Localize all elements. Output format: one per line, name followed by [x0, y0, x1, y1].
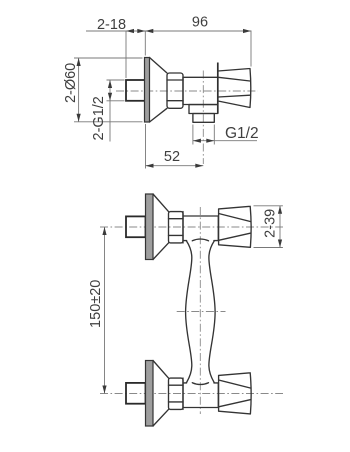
escutcheon flange plate — [145, 58, 150, 123]
extension line at flange face — [144, 32, 146, 56]
outlet threaded nipple — [193, 114, 214, 123]
top handle internal lines — [219, 214, 251, 241]
bottom inlet block — [126, 383, 146, 404]
dimension 2-39 line — [279, 206, 281, 248]
arrow left of 96 dim — [145, 29, 153, 33]
dimension 2-G1/2 arrows — [108, 80, 112, 88]
column body left edge — [186, 241, 192, 383]
arrow right of 96 dim — [243, 29, 251, 33]
handle cone internal lines — [218, 77, 250, 97]
bottom valve body — [183, 378, 218, 409]
nut facet lines — [167, 80, 183, 101]
centerline middle horizontal — [177, 311, 226, 313]
top nut facet lines — [169, 219, 184, 236]
dimension 52 arrows — [146, 164, 154, 168]
top inlet block — [126, 216, 146, 237]
dimension 2-O60 arrows — [77, 58, 81, 66]
top flange plate — [146, 194, 154, 260]
bottom nut facet lines — [169, 385, 184, 402]
dimension G1/2 arrows — [193, 139, 201, 143]
handle skirt — [217, 63, 219, 114]
inlet pipe block — [126, 80, 146, 101]
arrow right of 18 dim — [137, 29, 145, 33]
top valve body — [183, 212, 218, 243]
top handle — [219, 206, 252, 247]
dimension 150+-20 arrows — [102, 227, 106, 235]
dimension 2-39 arrows — [278, 206, 282, 214]
top escutcheon cone — [153, 194, 169, 260]
svg-text:96: 96 — [192, 15, 208, 31]
dimension 2-39 extension lines — [254, 205, 283, 207]
dimension 2-O60 line — [78, 58, 80, 122]
dimension 52 line — [146, 165, 204, 167]
centerline column vertical — [199, 207, 201, 414]
handle cone — [218, 69, 251, 108]
bottom escutcheon cone — [153, 361, 169, 427]
valve body — [183, 77, 218, 104]
dimension 150+-20 line — [104, 227, 106, 394]
bottom flange plate — [146, 361, 154, 427]
dimension 2-G1/2 extension lines — [107, 79, 125, 81]
arrow left of 18 dim — [126, 29, 134, 33]
svg-text:2-18: 2-18 — [97, 17, 126, 33]
escutcheon cone — [150, 58, 168, 123]
centerline bottom valve axis — [100, 393, 283, 395]
hex nut — [167, 73, 183, 108]
outlet upper step — [189, 105, 218, 114]
dimension G1/2 extension lines — [192, 125, 194, 145]
centerline horizontal valve axis — [116, 90, 258, 92]
extension line at wall — [125, 32, 127, 79]
dimension 2-18 and 96 line — [86, 30, 252, 32]
svg-text:2-Ø60: 2-Ø60 — [63, 63, 79, 103]
dimension G1/2 line with leader — [193, 140, 257, 142]
svg-text:150±20: 150±20 — [88, 280, 104, 328]
svg-text:G1/2: G1/2 — [225, 125, 259, 142]
centerline outlet axis vertical — [202, 71, 204, 165]
bottom hex nut — [169, 378, 184, 409]
bottom handle internal lines — [219, 380, 251, 407]
top saddle arc — [192, 239, 208, 241]
bottom handle — [219, 373, 252, 414]
dimension 2-O60 extension lines — [74, 57, 143, 59]
top hex nut — [169, 212, 184, 243]
dimension 52 extension line — [145, 124, 147, 169]
bottom saddle arc — [192, 383, 208, 385]
column body right edge — [209, 241, 215, 383]
svg-text:2-G1/2: 2-G1/2 — [91, 96, 107, 140]
svg-text:2-39: 2-39 — [262, 209, 278, 238]
svg-text:52: 52 — [164, 149, 180, 165]
extension line at handle end — [250, 32, 252, 67]
dimension 2-G1/2 line with leader — [109, 80, 111, 142]
centerline top valve axis — [100, 226, 283, 228]
